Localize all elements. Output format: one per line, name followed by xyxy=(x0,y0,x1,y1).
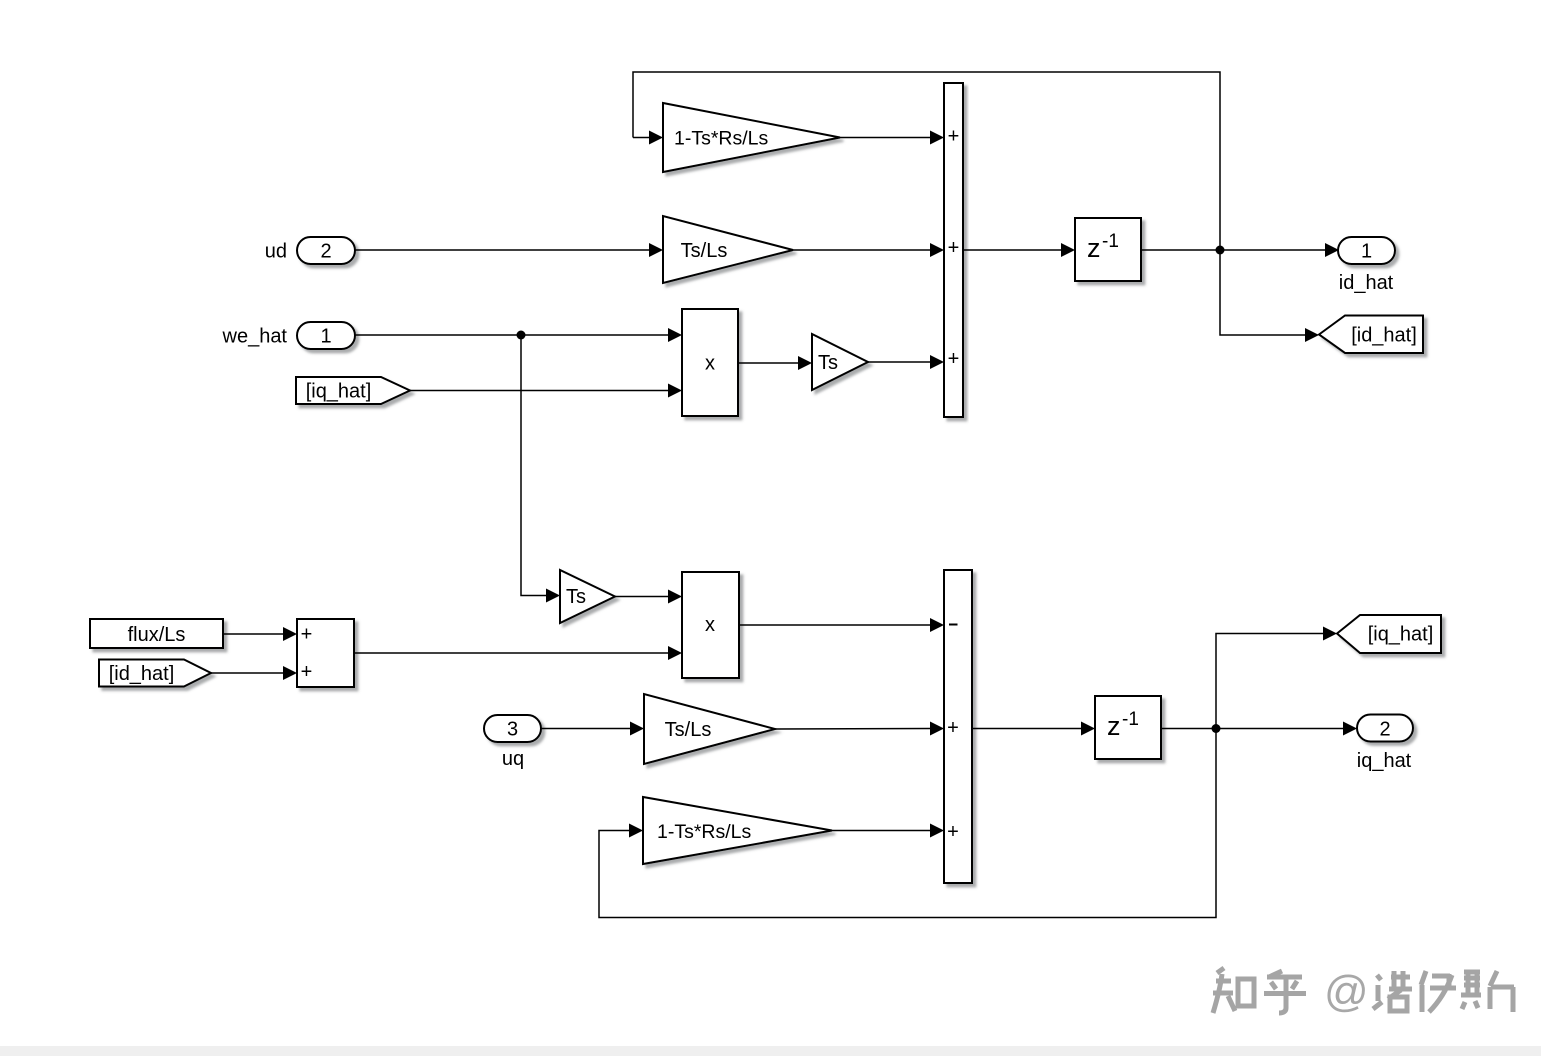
arrow into gain G6 xyxy=(629,824,643,838)
wire U2 to outport 2 xyxy=(1161,722,1357,736)
gain G5 Ts/Ls lower xyxy=(644,694,775,764)
from tag id_hat xyxy=(99,660,211,687)
svg-text:3: 3 xyxy=(507,719,518,741)
svg-text:z: z xyxy=(1107,711,1121,741)
wire into gain G1 xyxy=(633,131,663,145)
svg-text:Ts/Ls: Ts/Ls xyxy=(665,719,712,741)
svg-text:+: + xyxy=(947,717,959,739)
wire from-id_hat to sum S2 xyxy=(211,666,297,680)
svg-text:[id_hat]: [id_hat] xyxy=(1351,325,1417,347)
svg-text:Ts/Ls: Ts/Ls xyxy=(681,240,728,262)
svg-text:x: x xyxy=(705,614,715,636)
svg-text:2: 2 xyxy=(320,241,331,263)
svg-text:+: + xyxy=(948,126,960,148)
svg-text:+: + xyxy=(947,821,959,843)
svg-text:1: 1 xyxy=(320,326,331,348)
svg-text:1-Ts*Rs/Ls: 1-Ts*Rs/Ls xyxy=(674,128,769,150)
from tag iq_hat xyxy=(296,377,410,404)
outport 2 xyxy=(1357,715,1413,742)
inport 3 uq xyxy=(484,715,541,742)
gain G3 Ts xyxy=(812,334,868,390)
sum S3 xyxy=(944,570,972,883)
svg-text:@: @ xyxy=(1324,967,1369,1016)
svg-text:[iq_hat]: [iq_hat] xyxy=(306,381,372,403)
goto tag iq_hat xyxy=(1337,615,1441,653)
unit delay U1 z-1 xyxy=(1075,218,1141,281)
svg-text:ud: ud xyxy=(265,241,287,263)
wire U1 to outport 1 xyxy=(1141,243,1339,257)
wire flux/Ls to sum S2 xyxy=(223,627,297,641)
node junction iq_hat xyxy=(1212,724,1221,733)
svg-text:uq: uq xyxy=(502,748,524,770)
svg-text:-1: -1 xyxy=(1102,231,1119,252)
wire S1 to unit delay U1 xyxy=(963,243,1075,257)
svg-text:+: + xyxy=(948,237,960,259)
wire junction down to gain G4 xyxy=(521,335,560,603)
product P1 xyxy=(682,309,738,416)
wire P1 to gain G3 xyxy=(738,356,812,370)
wire G5 to sum S3 xyxy=(775,722,944,736)
svg-text:[iq_hat]: [iq_hat] xyxy=(1368,624,1434,646)
svg-text:[id_hat]: [id_hat] xyxy=(109,663,175,685)
gain G4 Ts lower xyxy=(560,570,615,623)
sum S2 xyxy=(297,619,354,687)
inport 2 ud xyxy=(297,237,355,264)
svg-text:-1: -1 xyxy=(1122,709,1139,730)
svg-text:1-Ts*Rs/Ls: 1-Ts*Rs/Ls xyxy=(657,821,752,843)
unit delay U2 z-1 xyxy=(1095,696,1161,759)
product P2 xyxy=(682,572,739,678)
wire inport2 to gain G2 xyxy=(355,243,663,257)
svg-text:+: + xyxy=(948,348,960,370)
inport 1 we_hat xyxy=(297,322,355,349)
wire bottom feedback loop xyxy=(599,729,1216,918)
wire G4 to product P2 xyxy=(615,590,682,604)
wire S2 to product P2 xyxy=(354,646,682,660)
svg-text:1: 1 xyxy=(1361,241,1372,263)
svg-text:+: + xyxy=(301,661,313,683)
sum S1 xyxy=(944,83,963,417)
svg-text:Ts: Ts xyxy=(566,586,586,608)
gain G2 Ts/Ls xyxy=(663,216,793,283)
wire S3 to unit delay U2 xyxy=(972,722,1095,736)
wire top feedback loop xyxy=(633,72,1220,250)
wire junction to goto iq_hat xyxy=(1216,627,1337,729)
watermark name glyphs xyxy=(1373,971,1514,1012)
node junction id_hat xyxy=(1216,246,1225,255)
wire from-iq_hat to product P1 xyxy=(410,384,682,398)
svg-text:z: z xyxy=(1087,233,1101,263)
watermark zhihu logo text xyxy=(1213,968,1306,1013)
svg-text:we_hat: we_hat xyxy=(222,326,288,348)
gain G6 1-Ts*Rs/Ls lower xyxy=(643,797,832,864)
wire G3 to sum S1 xyxy=(868,355,944,369)
wire inport1 to product P1 xyxy=(355,328,682,342)
bottom bar xyxy=(0,1046,1541,1056)
svg-text:Ts: Ts xyxy=(818,352,838,374)
wire P2 to sum S3 minus xyxy=(739,618,944,632)
gain G1 1-Ts*Rs/Ls xyxy=(663,103,840,172)
node junction we_hat xyxy=(517,331,526,340)
svg-text:2: 2 xyxy=(1379,719,1390,741)
svg-text:id_hat: id_hat xyxy=(1339,272,1394,294)
svg-text:flux/Ls: flux/Ls xyxy=(128,624,186,646)
svg-text:+: + xyxy=(301,624,313,646)
wire G2 to sum S1 xyxy=(793,243,944,257)
wire G6 to sum S3 xyxy=(832,824,944,838)
wire G1 to sum S1 xyxy=(840,131,944,145)
goto tag id_hat xyxy=(1319,316,1423,354)
outport 1 xyxy=(1338,237,1395,264)
wire inport3 to gain G5 xyxy=(541,722,644,736)
svg-text:x: x xyxy=(705,353,715,375)
wire junction to goto id_hat xyxy=(1220,250,1319,342)
svg-text:iq_hat: iq_hat xyxy=(1357,750,1412,772)
constant flux/Ls xyxy=(90,619,223,648)
